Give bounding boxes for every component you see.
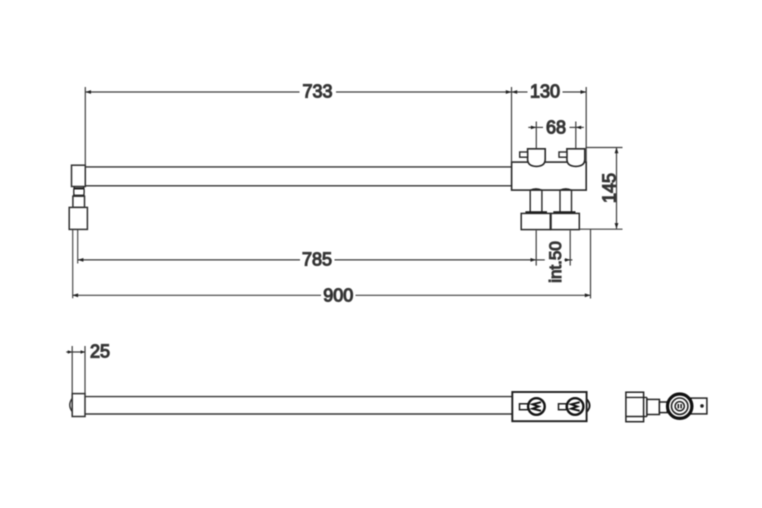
wall union nut (plan) <box>626 392 644 422</box>
stub pipe left <box>530 190 542 212</box>
dim 733/130 shared extension <box>511 87 513 162</box>
dim 145 bottom extension <box>580 228 623 230</box>
dim 733 extension left <box>84 87 86 165</box>
svg-text:130: 130 <box>530 81 560 101</box>
knob mark right <box>571 402 579 411</box>
svg-text:25: 25 <box>90 342 110 362</box>
plan valve knob right tab <box>559 404 567 410</box>
plan valve knob left tab <box>520 404 529 410</box>
wall block rect <box>69 207 87 229</box>
dim 145 top extension <box>586 147 623 149</box>
manifold body (side view) <box>512 162 587 190</box>
dim int.50 extensions <box>535 231 537 266</box>
bracket ring inner <box>675 402 684 411</box>
plan manifold plate <box>512 392 586 421</box>
right port tab <box>559 152 567 157</box>
dim 130 extension right <box>585 87 587 162</box>
left port tab <box>520 152 528 157</box>
bracket screw dot <box>700 404 704 408</box>
dim 900 line <box>72 294 321 296</box>
neck below cap <box>73 187 85 196</box>
plan valve knob right <box>567 398 584 415</box>
nut flange bands <box>525 211 547 213</box>
left valve port <box>528 149 546 167</box>
stub pipe right <box>560 190 572 212</box>
left hex nut <box>521 213 550 229</box>
union collar <box>659 402 667 413</box>
svg-text:733: 733 <box>302 81 332 101</box>
left end cap (side view) <box>72 165 86 186</box>
nut chamfer lines <box>626 396 647 398</box>
small collar rect <box>73 196 85 207</box>
bracket ring middle <box>672 398 688 414</box>
stem line right (doubles as 785 extension) <box>77 229 79 263</box>
svg-text:int.50: int.50 <box>546 241 565 283</box>
svg-text:785: 785 <box>302 249 332 269</box>
dim 68 line and outer tails <box>528 126 543 128</box>
dim 900 extension right <box>590 229 592 298</box>
wire rail tube (side view) <box>85 167 511 186</box>
plan tube <box>85 396 512 398</box>
svg-text:145: 145 <box>600 173 620 203</box>
svg-text:900: 900 <box>323 286 353 306</box>
dim 130 line <box>512 91 528 93</box>
union connector <box>647 399 660 414</box>
dim 145 line <box>616 148 618 229</box>
dim 25 extensions <box>71 346 73 393</box>
knob mark left <box>533 402 541 411</box>
svg-text:68: 68 <box>546 117 566 137</box>
plan valve knob left <box>528 398 545 415</box>
stub pipe domes <box>530 189 542 190</box>
right valve port <box>567 149 585 167</box>
stem line left (doubles as 900 extension) <box>72 229 74 298</box>
bracket ring outer <box>668 394 692 418</box>
plan left cap bulge <box>70 398 72 411</box>
dim int.50 line <box>536 259 545 261</box>
dim 733 line <box>85 91 299 93</box>
right hex nut <box>551 213 579 229</box>
bracket plate <box>691 398 707 414</box>
plan left cap <box>72 394 85 417</box>
bracket slot bars <box>677 404 679 408</box>
dim 68 extensions <box>535 122 537 149</box>
plan manifold plate right bulge <box>587 399 590 412</box>
dim 25 line <box>66 351 85 353</box>
dim 785 line <box>78 259 300 261</box>
